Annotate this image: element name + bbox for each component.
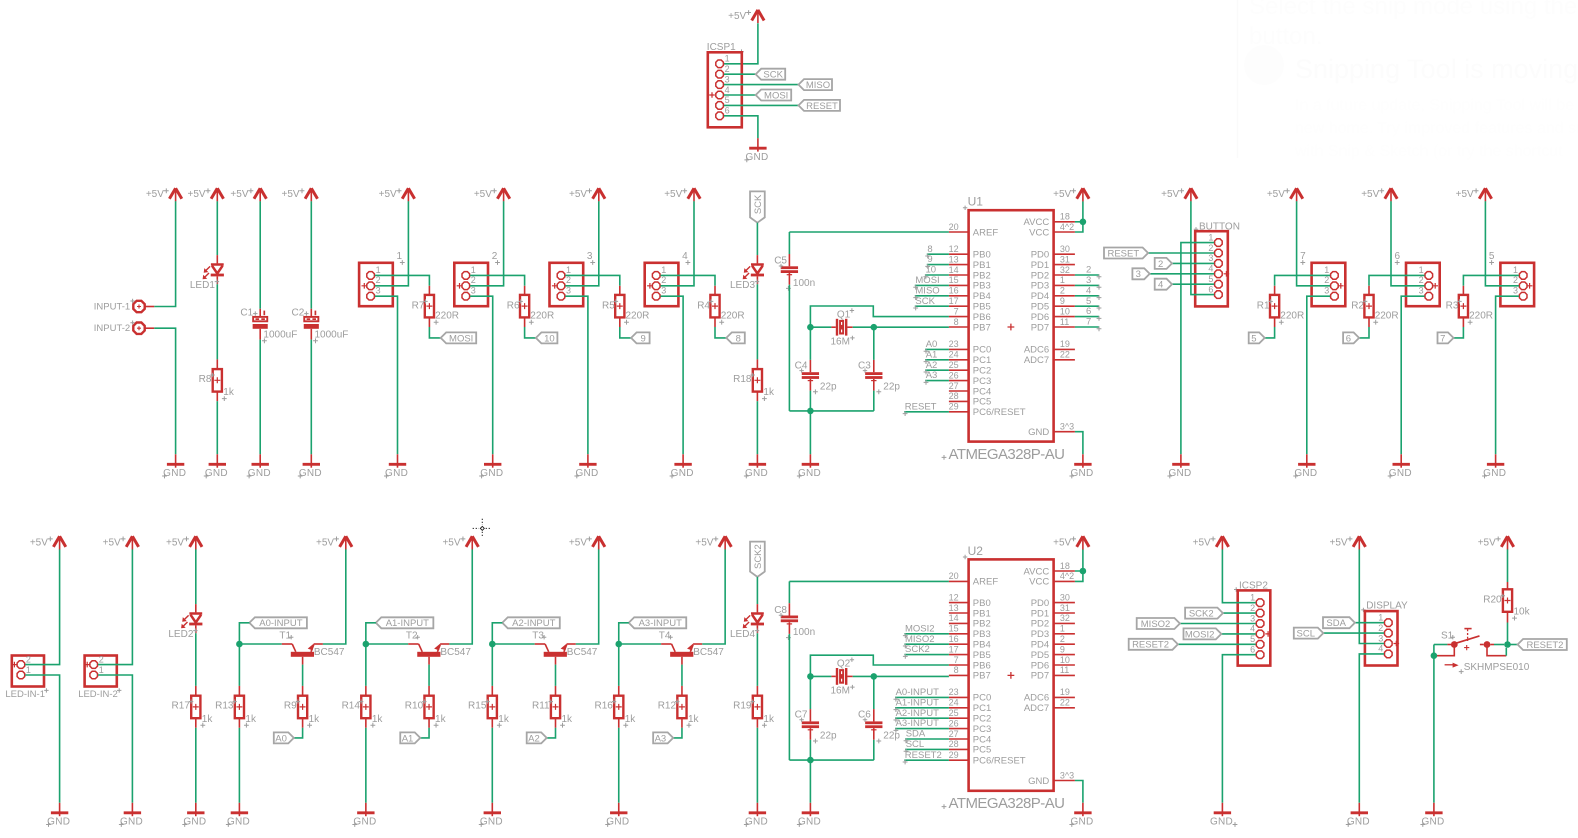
svg-text:12: 12 — [949, 592, 959, 602]
svg-text:MOSI2: MOSI2 — [905, 623, 935, 634]
svg-text:MISO: MISO — [806, 80, 830, 91]
svg-text:INPUT-1: INPUT-1 — [94, 302, 130, 313]
svg-text:PB2: PB2 — [973, 270, 991, 281]
wire header 3 pin2 to +5V — [565, 201, 599, 285]
svg-text:220R: 220R — [1280, 311, 1304, 322]
svg-text:2: 2 — [1513, 275, 1518, 285]
power +5V (LED-IN-2) — [126, 536, 138, 547]
svg-text:1k: 1k — [763, 387, 775, 398]
svg-text:16M: 16M — [831, 686, 850, 697]
svg-text:LED-IN-2: LED-IN-2 — [78, 689, 118, 700]
wire/label A0 (U1 PC0) — [925, 348, 949, 350]
BUTTON pin 2 — [1215, 249, 1223, 257]
svg-text:GND: GND — [47, 817, 70, 828]
U1 pin ADC7 (22) — [1054, 359, 1075, 361]
wire crystal left to C7 — [809, 676, 811, 709]
resistor R2 220R — [1364, 295, 1373, 318]
ICSP2 pin 1 — [1256, 599, 1264, 607]
U1 pin ADC6 (19) — [1054, 348, 1075, 350]
wire PB6 crystal route — [810, 306, 949, 327]
svg-text:VCC: VCC — [1029, 577, 1049, 588]
svg-text:S1: S1 — [1441, 630, 1454, 641]
svg-text:R14: R14 — [342, 701, 361, 712]
svg-text:14: 14 — [949, 265, 959, 275]
svg-text:10k: 10k — [1514, 607, 1531, 618]
svg-text:GND: GND — [575, 468, 598, 479]
svg-text:8: 8 — [954, 317, 959, 327]
svg-text:GND: GND — [353, 817, 376, 828]
U1 pin PC6/RESET (29) — [949, 411, 969, 413]
header 7 origin cross — [1338, 283, 1344, 289]
wire header 3 pin1 to R5 — [565, 275, 620, 285]
svg-text:A3-INPUT: A3-INPUT — [639, 618, 682, 629]
svg-text:2: 2 — [26, 654, 31, 664]
ground (switch) — [1433, 803, 1435, 816]
pad INPUT-1 — [133, 301, 144, 312]
svg-text:14: 14 — [949, 613, 959, 623]
U1 pin PD7 (11) — [1054, 326, 1075, 328]
svg-text:1k: 1k — [763, 714, 775, 725]
svg-text:PD4: PD4 — [1031, 640, 1049, 651]
wire ICSP1 pin1 to +5V — [724, 23, 758, 64]
wire rail to GND U2 — [809, 760, 811, 803]
svg-text:LED-IN-1: LED-IN-1 — [5, 689, 45, 700]
svg-text:R7: R7 — [412, 301, 425, 312]
header 1 pin 3 — [367, 292, 375, 300]
svg-text:LED4: LED4 — [730, 629, 755, 640]
wire LED4 to R19 — [756, 633, 758, 686]
junction R20/RESET2/switch — [1504, 641, 1511, 648]
wire PB6 crystal route U2 — [810, 655, 949, 676]
ICSP2 pin 5 — [1256, 641, 1264, 649]
svg-text:SDA: SDA — [906, 729, 926, 740]
svg-text:22: 22 — [1060, 698, 1070, 708]
svg-text:25: 25 — [949, 360, 959, 370]
svg-text:+5V: +5V — [103, 537, 121, 548]
ground (header 7) — [1306, 454, 1308, 467]
U1 pin PD0 (30) — [1054, 253, 1075, 255]
wire/label SCL (U2 PC5) — [905, 748, 949, 750]
svg-text:6: 6 — [1208, 284, 1213, 294]
svg-text:2: 2 — [1378, 623, 1383, 633]
svg-text:C2: C2 — [292, 307, 305, 318]
svg-text:PC4: PC4 — [973, 734, 991, 745]
wire ICSP2 pin6 to GND — [1222, 655, 1255, 803]
svg-text:SKHMPSE010: SKHMPSE010 — [1464, 662, 1530, 673]
svg-text:PB5: PB5 — [973, 302, 991, 313]
svg-text:4: 4 — [1250, 624, 1255, 634]
svg-text:SCK2: SCK2 — [905, 644, 930, 655]
wire ground rail U2 — [789, 759, 873, 761]
svg-text:1: 1 — [1208, 232, 1213, 242]
wire ICSP1 pin3 to MISO — [724, 84, 799, 86]
capacitor C6 22p — [865, 721, 882, 724]
svg-text:11: 11 — [1060, 317, 1069, 327]
flag 6 — [1343, 332, 1359, 343]
resistor R20 10k — [1503, 589, 1512, 612]
svg-text:3^3: 3^3 — [1060, 422, 1074, 432]
svg-text:GND: GND — [798, 817, 821, 828]
junction T1 base node — [236, 641, 243, 648]
wire/label A2 (U1 PC2) — [925, 369, 949, 371]
wire BUTTON pin1 to GND — [1181, 243, 1214, 455]
wire/label A3-INPUT (U2 PC3) — [895, 728, 949, 730]
svg-text:GND: GND — [1389, 468, 1412, 479]
wire DISPLAY pin1 to SDA — [1355, 622, 1384, 624]
header 6 origin cross — [1432, 283, 1438, 289]
svg-text:ATMEGA328P-AU: ATMEGA328P-AU — [949, 446, 1065, 463]
ground (R15) — [491, 803, 493, 816]
U2 pin PB6 (7) — [949, 664, 969, 666]
wire A1-INPUT to base node — [366, 623, 376, 644]
svg-text:new home. Try improved feature: new home. Try improved features and snip… — [1295, 120, 1578, 137]
header 2 pin 1 — [462, 272, 470, 280]
svg-text:31: 31 — [1060, 254, 1070, 264]
header 6 pin 2 — [1425, 282, 1433, 290]
svg-text:7: 7 — [1440, 333, 1445, 344]
wire base node to R15 — [491, 644, 493, 686]
U2 pin PD4 (2) — [1054, 643, 1075, 645]
svg-text:220R: 220R — [626, 311, 650, 322]
BUTTON pin 1 — [1215, 239, 1223, 247]
ICSP1 pin 6 — [716, 112, 724, 120]
svg-text:PC1: PC1 — [973, 703, 991, 714]
capacitor C4 22p — [802, 372, 819, 375]
svg-text:+5V: +5V — [569, 537, 587, 548]
flag SCK2 — [1185, 608, 1223, 619]
junction U2 AVCC — [1080, 568, 1087, 575]
wire base node to T2 base — [366, 643, 408, 645]
svg-text:28: 28 — [949, 739, 959, 749]
svg-text:GND: GND — [1210, 817, 1233, 828]
svg-text:AREF: AREF — [973, 577, 999, 588]
svg-text:BC547: BC547 — [567, 647, 598, 658]
wire ICSP2 pin1 to +5V — [1222, 549, 1255, 602]
power +5V (T1) — [340, 536, 352, 547]
wire/label MISO2 (U2 PB4) — [904, 643, 949, 645]
svg-text:R5: R5 — [602, 301, 615, 312]
svg-text:Q2: Q2 — [837, 659, 851, 670]
svg-text:PC6/RESET: PC6/RESET — [973, 756, 1026, 767]
svg-text:PD6: PD6 — [1031, 660, 1049, 671]
wire R20 to node — [1507, 612, 1509, 623]
U2 pin AREF (20) — [949, 580, 969, 582]
wire/label net 6 (U1 PD6) — [1075, 316, 1099, 318]
svg-text:3: 3 — [1250, 613, 1255, 623]
svg-text:GND: GND — [1070, 468, 1093, 479]
wire header 4 pin1 to R4 — [661, 275, 716, 285]
svg-text:RESET2: RESET2 — [1526, 640, 1563, 651]
svg-text:2: 2 — [1208, 243, 1213, 253]
svg-text:5: 5 — [1251, 333, 1256, 344]
wire ICSP1 pin6 to GND — [724, 116, 758, 138]
wire AREF net U2 — [789, 580, 949, 582]
wire header 7 pin2 to +5V — [1297, 201, 1331, 285]
svg-text:A2: A2 — [528, 733, 540, 744]
capacitor C2 1000uF — [314, 311, 316, 316]
U2 pin PC3 (26) — [949, 728, 969, 730]
wire crystal right — [847, 326, 853, 328]
ICSP2 pin 2 — [1256, 609, 1264, 617]
wire A0-INPUT to base node — [239, 623, 249, 644]
svg-text:R3: R3 — [1446, 301, 1459, 312]
wire crystal right U2 — [847, 675, 853, 677]
svg-text:T1: T1 — [279, 630, 291, 641]
svg-text:GND: GND — [1347, 817, 1370, 828]
LED LED2 — [195, 604, 197, 612]
transistor T4 BC547 — [661, 643, 671, 645]
flag RESET2 (switch) — [1518, 639, 1567, 650]
DISPLAY pin 2 — [1385, 629, 1393, 637]
header 4 pin 2 — [652, 282, 660, 290]
power +5V (C2) — [305, 188, 317, 199]
wire SCK flag to LED3 — [756, 223, 758, 255]
svg-text:16: 16 — [949, 286, 959, 296]
U2 pin PC0 (23) — [949, 696, 969, 698]
wire ICSP2 pin2 to SCK2 — [1223, 612, 1256, 614]
ground (LED3) — [756, 454, 758, 467]
U2 pin PB7 (8) — [949, 674, 969, 676]
svg-text:1: 1 — [566, 265, 571, 275]
wire/label net 7 (U1 PD7) — [1075, 326, 1099, 328]
wire/label SCK2 (U2 PB5) — [904, 654, 949, 656]
wire T2 emitter to +5V — [449, 549, 472, 644]
svg-text:SCK: SCK — [915, 296, 935, 307]
resistor R1 220R — [1270, 295, 1279, 318]
svg-text:1k: 1k — [498, 714, 510, 725]
svg-text:PD1: PD1 — [1031, 260, 1049, 271]
header 4 pin 1 — [652, 272, 660, 280]
ICSP1 pin 4 — [716, 91, 724, 99]
flag A1 — [400, 732, 420, 743]
wire R3 to flag 7 — [1462, 317, 1464, 327]
svg-text:PB5: PB5 — [973, 650, 991, 661]
ground (header 6) — [1400, 454, 1402, 467]
U2 pin AVCC (18) — [1054, 570, 1075, 572]
wire T3 emitter to +5V — [576, 549, 599, 644]
wire node to RESET2 flag — [1508, 644, 1518, 646]
flag MOSI — [441, 332, 477, 343]
svg-text:12: 12 — [949, 244, 959, 254]
svg-text:A0-INPUT: A0-INPUT — [896, 687, 939, 698]
svg-text:R11: R11 — [532, 701, 550, 712]
wire LED1 to R8 — [216, 284, 218, 359]
svg-text:ADC6: ADC6 — [1024, 345, 1049, 356]
svg-text:R10: R10 — [405, 701, 424, 712]
svg-text:5: 5 — [1250, 634, 1255, 644]
resistor R12 — [677, 696, 686, 719]
wire/label 8 (U1 PB0) — [927, 253, 949, 255]
header 3 pin 2 — [557, 282, 565, 290]
ghost text — [1244, 0, 1578, 160]
U1 pin PB7 (8) — [949, 326, 969, 328]
U1 pin PC5 (28) — [949, 400, 969, 402]
svg-text:PB3: PB3 — [973, 629, 991, 640]
wire +5V to C2 — [310, 201, 312, 308]
wire AREF down to C8 — [788, 581, 790, 603]
svg-text:GND: GND — [606, 817, 629, 828]
U2 pin PC6/RESET (29) — [949, 759, 969, 761]
U1 pin PC2 (25) — [949, 369, 969, 371]
svg-text:R2: R2 — [1351, 301, 1364, 312]
wire/label A0-INPUT (U2 PC0) — [895, 696, 949, 698]
svg-text:A1: A1 — [926, 349, 938, 360]
junction T2 base node — [363, 641, 370, 648]
resistor R6 220R — [520, 295, 529, 318]
svg-text:3: 3 — [1378, 633, 1383, 643]
svg-text:U2: U2 — [968, 544, 984, 558]
svg-text:1: 1 — [1378, 613, 1383, 623]
wire C6 to rail — [873, 728, 875, 740]
wire BUTTON pin6 to +5V — [1191, 201, 1214, 294]
header 2 pin 2 — [462, 282, 470, 290]
wire C8 to ground rail — [788, 622, 790, 634]
U1 pin PB0 (12) — [949, 253, 969, 255]
svg-text:3^3: 3^3 — [1060, 770, 1074, 780]
wire BUTTON pin5 to 4 — [1172, 283, 1214, 285]
svg-text:PD0: PD0 — [1031, 598, 1049, 609]
svg-text:PB1: PB1 — [973, 608, 991, 619]
wire SCK2 flag to LED4 — [756, 577, 758, 604]
wire A2-INPUT to base node — [492, 623, 502, 644]
ICSP2 pin 3 — [1256, 620, 1264, 628]
svg-text:2: 2 — [1419, 275, 1424, 285]
U2 pin ADC6 (19) — [1054, 696, 1075, 698]
svg-text:10: 10 — [926, 265, 937, 276]
svg-text:PC0: PC0 — [973, 693, 991, 704]
svg-text:8: 8 — [736, 333, 741, 344]
wire R12 to flag A3 — [681, 718, 683, 728]
svg-text:3: 3 — [1136, 269, 1141, 280]
U1 pin PB3 (15) — [949, 284, 969, 286]
svg-text:T2: T2 — [406, 630, 418, 641]
svg-text:A0-INPUT: A0-INPUT — [259, 618, 302, 629]
svg-text:R18: R18 — [733, 374, 752, 385]
svg-text:3: 3 — [661, 286, 666, 296]
wire LED-IN-2 pin1 to GND — [98, 675, 132, 803]
svg-text:GND: GND — [745, 468, 768, 479]
junction crystal right U2 — [871, 673, 878, 680]
ICSP2 pin 6 — [1256, 651, 1264, 659]
U1 pin VCC (4^2) — [1054, 231, 1075, 233]
svg-text:25: 25 — [949, 708, 959, 718]
power +5V (R20) — [1501, 536, 1513, 547]
header 1 pin 2 — [367, 282, 375, 290]
svg-text:24: 24 — [949, 698, 959, 708]
svg-text:PB4: PB4 — [973, 291, 991, 302]
svg-text:20: 20 — [949, 222, 959, 232]
svg-text:4: 4 — [682, 251, 688, 262]
wire INPUT-1 to +5V — [145, 306, 155, 308]
wire ICSP1 pin4 to MOSI — [724, 94, 756, 96]
power +5V (LED-IN-1) — [53, 536, 65, 547]
svg-text:22p: 22p — [883, 381, 900, 392]
svg-text:PD5: PD5 — [1031, 302, 1049, 313]
ground (INPUT column) — [175, 454, 177, 467]
power +5V (header 4) — [688, 188, 700, 199]
svg-text:16: 16 — [949, 634, 959, 644]
wire DISPLAY pin2 to SCL — [1323, 632, 1384, 634]
U1 pin PC3 (26) — [949, 380, 969, 382]
svg-text:AVCC: AVCC — [1023, 566, 1049, 577]
svg-text:19: 19 — [1060, 339, 1070, 349]
header 2 origin cross — [457, 283, 463, 289]
svg-text:GND: GND — [1294, 468, 1317, 479]
svg-text:SCK2: SCK2 — [1189, 609, 1214, 620]
svg-text:5: 5 — [1208, 274, 1213, 284]
wire +5V to R20 — [1507, 549, 1509, 582]
wire R17 to GND — [195, 718, 197, 728]
power +5V (U2) — [1077, 536, 1089, 547]
header 5 pin 1 — [1519, 272, 1527, 280]
LED-IN-2 origin cross — [84, 662, 90, 668]
svg-text:RESET: RESET — [806, 101, 838, 112]
header 3 pin 3 — [557, 292, 565, 300]
U1 pin PD4 (2) — [1054, 295, 1075, 297]
wire/label SCK (U1 PB5) — [915, 305, 949, 307]
svg-text:R12: R12 — [658, 701, 677, 712]
connector BUTTON — [1194, 227, 1198, 231]
U2 pin PD1 (31) — [1054, 612, 1075, 614]
transistor T3 BC547 — [535, 643, 545, 645]
header 4 pin 3 — [652, 292, 660, 300]
svg-text:9: 9 — [1060, 296, 1065, 306]
BUTTON pin 6 — [1215, 291, 1223, 299]
capacitor C5 100n — [781, 266, 798, 269]
flag 5 — [1249, 332, 1265, 343]
svg-text:2: 2 — [1060, 634, 1065, 644]
power +5V (header 6) — [1385, 188, 1397, 199]
svg-text:9: 9 — [927, 254, 932, 265]
svg-text:17: 17 — [949, 644, 959, 654]
svg-text:8: 8 — [954, 665, 959, 675]
svg-text:4: 4 — [1086, 285, 1091, 296]
wire R11 to flag A2 — [555, 718, 557, 728]
U2 pin PD2 (32) — [1054, 622, 1075, 624]
wire crystal left to C4 — [809, 327, 811, 360]
LED-IN-2 pin 2 — [90, 661, 98, 669]
wire R14 to GND — [365, 718, 367, 728]
svg-text:+5V: +5V — [442, 537, 460, 548]
svg-text:3: 3 — [1324, 286, 1329, 296]
svg-text:1: 1 — [1324, 265, 1329, 275]
svg-text:+5V: +5V — [1161, 189, 1179, 200]
power +5V (ICSP2) — [1216, 536, 1228, 547]
wire ICSP2 pin3 to MISO2 — [1180, 623, 1256, 625]
ground (R13) — [238, 803, 240, 816]
wire header 7 pin3 to GND — [1307, 296, 1330, 454]
svg-text:3: 3 — [1208, 253, 1213, 263]
wire U1 GND pin to ground — [1075, 432, 1083, 455]
wire header 5 pin3 to GND — [1496, 296, 1519, 454]
U1 pin PC0 (23) — [949, 348, 969, 350]
wire R16 to GND — [618, 718, 620, 728]
svg-text:2: 2 — [566, 275, 571, 285]
power +5V (header 5) — [1479, 188, 1491, 199]
svg-text:+5V: +5V — [695, 537, 713, 548]
U2 pin PB3 (15) — [949, 633, 969, 635]
flag SCL — [1294, 628, 1324, 639]
wire base node to R16 — [618, 644, 620, 686]
wire U1 AVCC/VCC to +5V — [1075, 201, 1083, 232]
svg-text:28: 28 — [949, 391, 959, 401]
flag A3 — [653, 732, 673, 743]
svg-text:SCL: SCL — [1297, 629, 1315, 640]
svg-text:1: 1 — [661, 265, 666, 275]
wire R4 to flag 8 — [714, 317, 716, 327]
ground (LED-IN-1) — [59, 803, 61, 816]
U2 pin VCC (4^2) — [1054, 580, 1075, 582]
